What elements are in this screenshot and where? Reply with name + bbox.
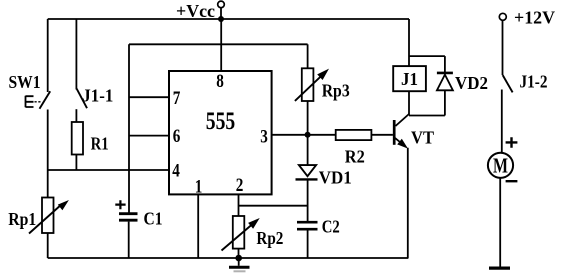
potentiometer Rp2 (222, 216, 260, 251)
transistor VT (394, 114, 409, 149)
junction dot Rp2/ground (235, 255, 242, 262)
wire: VD1 anode lead (307, 135, 309, 165)
junction dot at +Vcc rail (218, 16, 224, 22)
wire: J1 bottom to collector node (408, 91, 410, 115)
svg-text:VD1: VD1 (319, 168, 352, 188)
motor M (488, 153, 513, 178)
svg-text:+Vcc: +Vcc (176, 1, 215, 21)
terminal bar bottom right (489, 266, 510, 269)
wire: J1-1 branch top (75, 19, 77, 90)
relay contact J1-1 (77, 89, 87, 109)
ground (229, 258, 250, 271)
wire: pin1 lead to bottom rail (197, 194, 199, 258)
wire: pin4 line (48, 169, 169, 171)
op-amp timer IC 555 box (169, 71, 272, 194)
wire: bottom rail (48, 257, 409, 259)
svg-text:J1-2: J1-2 (520, 72, 548, 92)
wire: VD2 bottom tee (409, 115, 445, 117)
wire: C1 to bottom rail (128, 222, 130, 258)
wire: pin6 stub (129, 135, 169, 137)
potentiometer Rp1 (29, 198, 69, 234)
label + motor (506, 137, 518, 148)
svg-text:7: 7 (173, 88, 181, 109)
diode VD2 (437, 73, 453, 90)
svg-text:Rp1: Rp1 (8, 209, 36, 229)
wire: R2 to VT base (371, 134, 393, 136)
wire: C2 to bottom rail (307, 229, 309, 258)
wire: J1-1 to R1 (75, 109, 77, 122)
svg-text:3: 3 (260, 126, 268, 147)
wire: VT emitter to bottom rail (407, 148, 409, 258)
svg-text:6: 6 (173, 126, 181, 147)
svg-text:Rp3: Rp3 (322, 81, 350, 101)
diode VD1 (296, 165, 318, 179)
junction dot pin3/Rp3/VD1 (305, 132, 311, 138)
wire: motor to bottom terminal (499, 178, 501, 267)
switch SW1 (26, 91, 51, 109)
wire: SW1 branch top (47, 19, 49, 92)
wire: VD1 cathode to C2 (307, 180, 309, 223)
relay contact J1-2 (503, 75, 513, 92)
svg-text:SW1: SW1 (9, 72, 41, 92)
resistor R2 (336, 130, 372, 140)
svg-text:R2: R2 (345, 147, 365, 167)
svg-text:J1-1: J1-1 (82, 86, 113, 106)
wire: Rp3 top lead (307, 44, 309, 68)
svg-text:R1: R1 (91, 134, 109, 154)
relay coil J1 box (393, 66, 426, 91)
svg-text:J1: J1 (401, 69, 418, 89)
svg-text:1: 1 (195, 177, 203, 198)
svg-text:+12V: +12V (514, 8, 555, 28)
svg-text:8: 8 (216, 71, 224, 92)
svg-text:C1: C1 (144, 209, 163, 229)
wire: top +Vcc rail (48, 18, 409, 20)
terminal +Vcc circle (218, 1, 225, 8)
wire: pin3 line (272, 134, 336, 136)
wire: pin2 lead (238, 194, 240, 216)
svg-text:4: 4 (172, 161, 180, 182)
wire: right vertical from top rail to J1 (408, 19, 410, 66)
wire: +12V to J1-2 (502, 20, 504, 75)
svg-text:C2: C2 (322, 217, 340, 237)
wire: +Vcc stem (220, 8, 222, 19)
svg-text:555: 555 (206, 106, 236, 135)
potentiometer Rp3 (295, 68, 329, 101)
svg-text:2: 2 (236, 175, 244, 196)
label - motor (506, 180, 518, 182)
wire: VD2 top tee (409, 55, 445, 57)
svg-text:Rp2: Rp2 (256, 228, 283, 248)
resistor R1 (72, 122, 83, 155)
wire: VD2 bottom lead (444, 90, 446, 115)
svg-text:VT: VT (411, 127, 434, 147)
capacitor C2 (297, 222, 318, 229)
wire: pin2 tee to C2 node (239, 205, 308, 207)
wire: SW1 to pin4 line and Rp1 (47, 110, 49, 198)
wire: Rp3 bottom lead (307, 101, 309, 135)
wire: pin7 stub (129, 96, 169, 98)
svg-text:M: M (493, 153, 508, 177)
terminal +12V circle (499, 13, 506, 20)
svg-text:VD2: VD2 (455, 73, 488, 93)
wire: R1 to pin4 line (75, 155, 77, 171)
capacitor C1 (115, 200, 137, 220)
wire: VD2 top lead (444, 56, 446, 72)
wire: J1-2 to motor (501, 90, 503, 153)
wire: Rp1 to bottom rail (47, 233, 49, 258)
wire: inner left vertical to C1 (128, 44, 130, 213)
wire: pin8 stub (220, 19, 222, 71)
wire: inner top rail (129, 43, 308, 45)
wire: Rp2 to bottom rail (238, 249, 240, 258)
